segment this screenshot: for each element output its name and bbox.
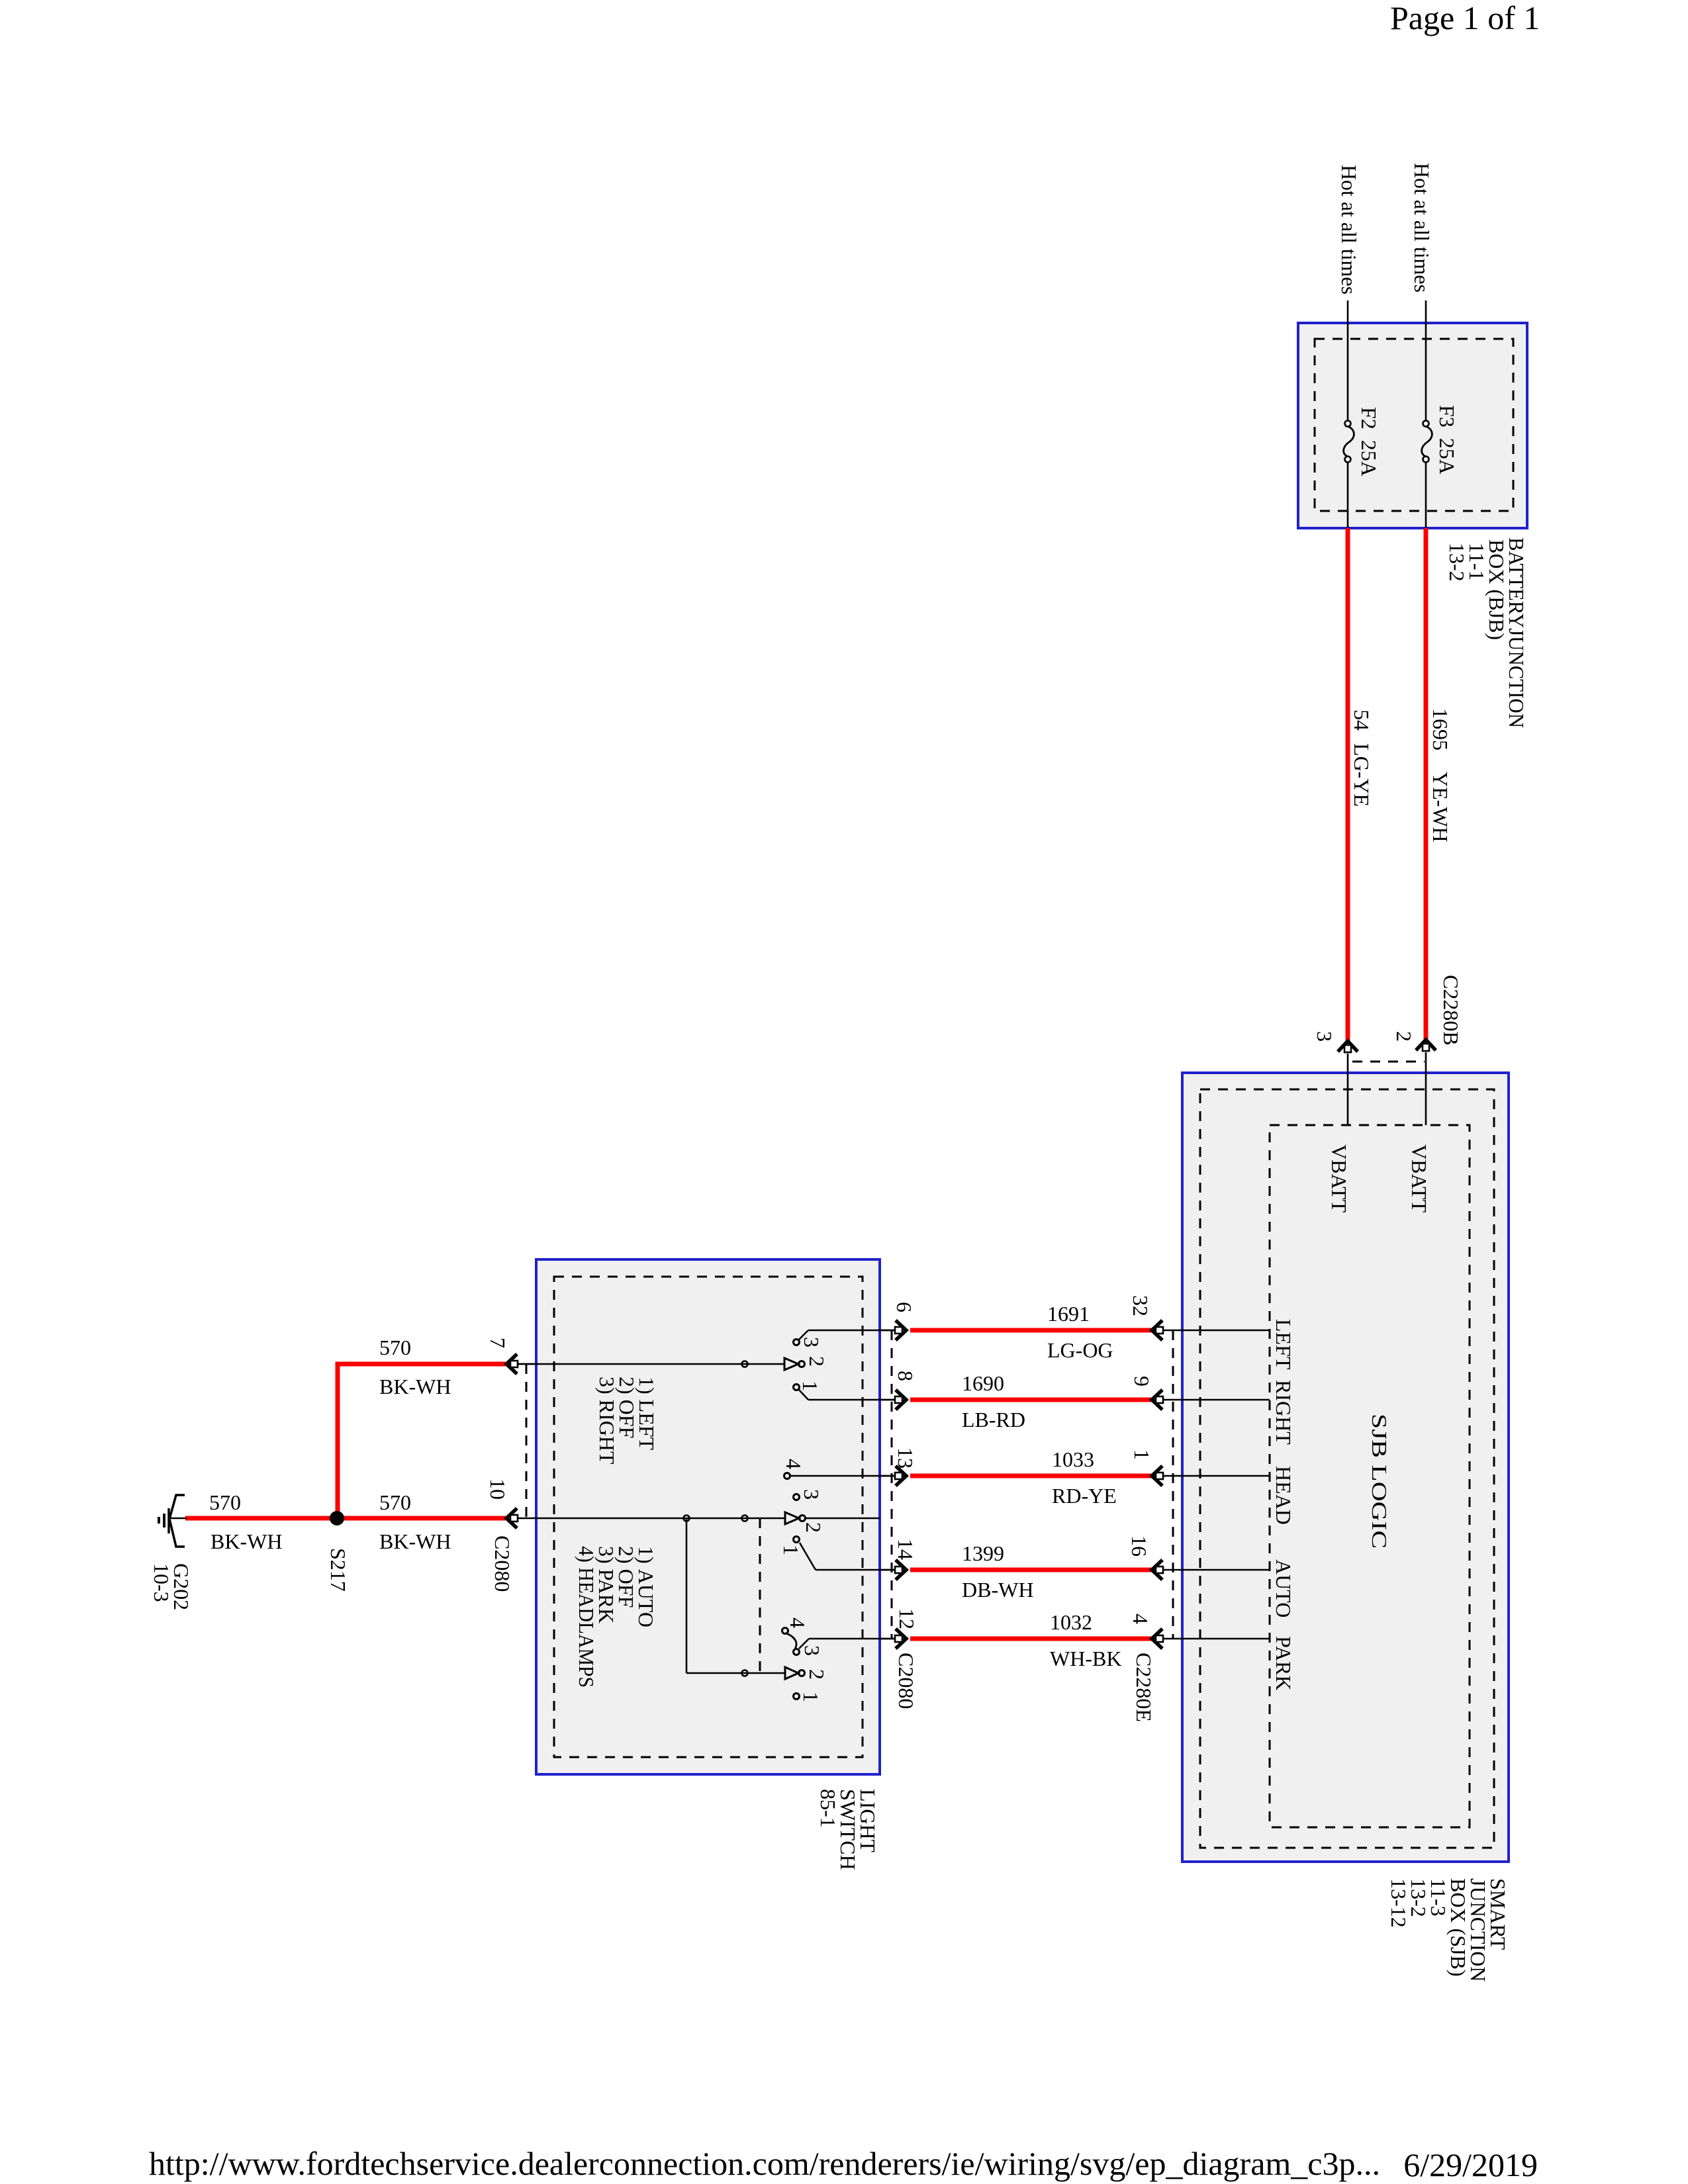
svg-text:13: 13 (894, 1447, 917, 1469)
svg-text:16: 16 (1127, 1535, 1151, 1557)
svg-text:C2280B: C2280B (1439, 975, 1463, 1046)
svg-text:BK-WH: BK-WH (211, 1529, 282, 1553)
svg-text:4: 4 (782, 1459, 806, 1469)
svg-text:PARK: PARK (1272, 1636, 1295, 1690)
svg-text:6: 6 (892, 1302, 916, 1312)
svg-text:WH-BK: WH-BK (1050, 1647, 1121, 1670)
svg-text:4: 4 (1129, 1614, 1152, 1624)
svg-text:Page 1 of 1: Page 1 of 1 (1390, 0, 1540, 36)
svg-text:6/29/2019: 6/29/2019 (1403, 2146, 1538, 2183)
svg-text:LB-RD: LB-RD (962, 1408, 1025, 1432)
svg-text:BK-WH: BK-WH (379, 1529, 451, 1553)
svg-text:8: 8 (894, 1371, 917, 1381)
svg-text:1399: 1399 (962, 1541, 1004, 1565)
svg-text:BK-WH: BK-WH (379, 1375, 451, 1398)
svg-text:RD-YE: RD-YE (1052, 1484, 1117, 1508)
svg-text:S217: S217 (326, 1548, 350, 1592)
svg-text:VBATT: VBATT (1327, 1144, 1351, 1213)
svg-text:1690: 1690 (962, 1371, 1004, 1395)
svg-text:F2 25A: F2 25A (1357, 407, 1381, 477)
svg-text:9: 9 (1130, 1376, 1154, 1387)
svg-text:RIGHT: RIGHT (1272, 1380, 1295, 1445)
svg-text:YE-WH: YE-WH (1429, 772, 1452, 842)
svg-text:4) HEADLAMPS: 4) HEADLAMPS (575, 1546, 598, 1688)
svg-text:C2080: C2080 (894, 1653, 918, 1709)
svg-text:12: 12 (895, 1608, 919, 1629)
svg-text:7: 7 (486, 1338, 510, 1348)
svg-text:2: 2 (1392, 1031, 1416, 1042)
svg-text:DB-WH: DB-WH (962, 1578, 1033, 1602)
svg-text:LG-OG: LG-OG (1047, 1338, 1113, 1362)
svg-text:570: 570 (379, 1490, 411, 1514)
svg-text:54: 54 (1350, 709, 1374, 731)
svg-text:3) RIGHT: 3) RIGHT (595, 1377, 619, 1465)
svg-text:http://www.fordtechservice.dea: http://www.fordtechservice.dealerconnect… (149, 2145, 1380, 2182)
svg-text:LG-YE: LG-YE (1350, 743, 1374, 807)
svg-text:SJB LOGIC: SJB LOGIC (1368, 1414, 1391, 1549)
svg-text:1695: 1695 (1429, 708, 1452, 751)
svg-text:C2080: C2080 (491, 1535, 514, 1592)
svg-text:3: 3 (1313, 1031, 1336, 1042)
svg-text:13-2: 13-2 (1445, 543, 1469, 582)
svg-text:1: 1 (779, 1545, 803, 1555)
svg-text:2: 2 (805, 1669, 829, 1680)
svg-text:13-12: 13-12 (1387, 1878, 1411, 1928)
svg-text:10: 10 (486, 1479, 510, 1500)
svg-text:1: 1 (1130, 1449, 1154, 1460)
svg-text:C2280E: C2280E (1132, 1653, 1156, 1722)
svg-text:Hot at all times: Hot at all times (1337, 165, 1361, 295)
svg-text:10-3: 10-3 (150, 1563, 173, 1602)
svg-text:1032: 1032 (1050, 1610, 1092, 1634)
svg-text:AUTO: AUTO (1272, 1559, 1295, 1617)
svg-text:85-1: 85-1 (816, 1789, 840, 1828)
svg-text:1: 1 (798, 1381, 822, 1391)
svg-text:3: 3 (800, 1645, 824, 1656)
svg-text:HEAD: HEAD (1272, 1466, 1295, 1525)
svg-text:2: 2 (805, 1356, 829, 1367)
svg-text:Hot at all times: Hot at all times (1410, 163, 1434, 293)
svg-text:F3 25A: F3 25A (1435, 405, 1459, 475)
svg-text:VBATT: VBATT (1407, 1144, 1431, 1213)
svg-text:570: 570 (379, 1336, 411, 1359)
svg-text:1: 1 (799, 1692, 823, 1702)
svg-text:32: 32 (1129, 1295, 1152, 1316)
svg-text:1691: 1691 (1047, 1302, 1090, 1326)
svg-text:14: 14 (894, 1539, 917, 1560)
svg-text:4: 4 (786, 1617, 810, 1628)
svg-text:LEFT: LEFT (1272, 1319, 1295, 1370)
svg-text:570: 570 (209, 1490, 241, 1514)
svg-text:1033: 1033 (1052, 1447, 1094, 1471)
svg-text:2: 2 (802, 1522, 825, 1533)
svg-text:3: 3 (800, 1489, 823, 1500)
svg-text:3: 3 (800, 1337, 823, 1347)
